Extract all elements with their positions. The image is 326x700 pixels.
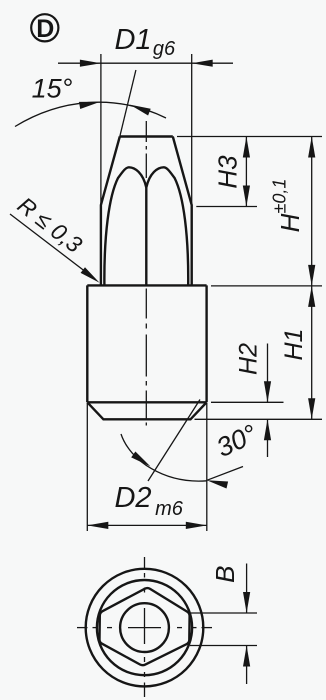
svg-text:±0,1: ±0,1 bbox=[270, 179, 290, 214]
svg-text:15°: 15° bbox=[32, 74, 73, 104]
svg-text:B: B bbox=[210, 566, 240, 583]
svg-text:H1: H1 bbox=[280, 329, 308, 361]
svg-text:H: H bbox=[275, 213, 305, 232]
svg-text:g6: g6 bbox=[153, 38, 176, 60]
svg-text:30°: 30° bbox=[212, 419, 262, 464]
svg-text:D: D bbox=[36, 15, 54, 43]
svg-text:H2: H2 bbox=[235, 343, 263, 375]
svg-text:m6: m6 bbox=[155, 498, 184, 520]
svg-text:D2: D2 bbox=[114, 482, 151, 514]
svg-text:D1: D1 bbox=[114, 24, 151, 56]
svg-text:H3: H3 bbox=[213, 155, 243, 189]
